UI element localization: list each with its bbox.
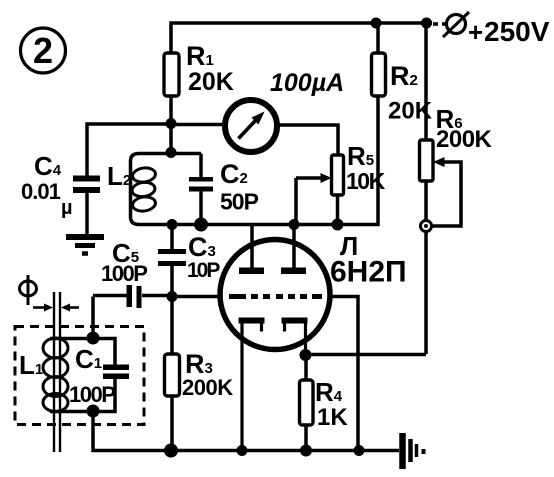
svg-text:6Н2П: 6Н2П [330, 256, 407, 289]
svg-text:100µA: 100µA [270, 69, 344, 97]
svg-text:20K: 20K [188, 68, 234, 96]
svg-text:+: + [468, 17, 483, 47]
svg-text:200K: 200K [436, 126, 493, 153]
svg-text:µ: µ [61, 197, 73, 219]
svg-text:200K: 200K [182, 375, 233, 400]
svg-text:2: 2 [33, 30, 53, 71]
svg-text:50P: 50P [220, 189, 259, 215]
svg-text:0.01: 0.01 [21, 179, 61, 204]
svg-text:100P: 100P [69, 382, 115, 407]
svg-text:250V: 250V [484, 16, 550, 47]
svg-text:20K: 20K [388, 98, 433, 125]
svg-text:10K: 10K [346, 168, 386, 194]
svg-text:10P: 10P [187, 259, 220, 282]
svg-text:100P: 100P [101, 261, 147, 286]
svg-text:1K: 1K [317, 404, 348, 431]
